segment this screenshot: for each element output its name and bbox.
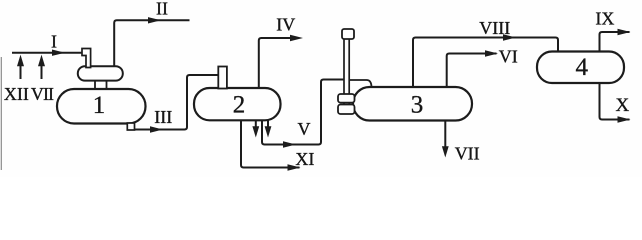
svg-text:II: II [156,0,168,18]
svg-text:III: III [154,107,172,127]
vessel 1 [57,89,146,124]
arrow on line VIII [503,34,516,40]
svg-text:3: 3 [411,91,424,118]
svg-text:VI: VI [499,47,518,67]
wire V from vessel 2 to vessel 3 mixer [262,80,344,145]
svg-text:1: 1 [93,92,106,119]
vessel 2 bottom stub down-arrow b [267,120,269,128]
svg-text:4: 4 [575,54,588,81]
svg-text:2: 2 [233,91,246,118]
wire X [600,83,630,120]
svg-text:XI: XI [295,149,314,169]
vessel 2 top nozzle [218,67,227,89]
svg-text:IX: IX [595,9,614,29]
wire XI [241,120,300,167]
scan artifact left edge [0,57,2,170]
mixer shaft on vessel 3 [344,39,349,110]
wire III from vessel 1 to vessel 2 [134,75,219,130]
arrow on line II [148,17,161,23]
svg-text:VII: VII [31,84,54,104]
wire I feed line [12,52,82,54]
arrow XI tip [288,164,301,170]
svg-text:I: I [51,32,57,52]
wire VI [447,54,497,88]
wire II [114,20,189,66]
mixer stub outline right of shaft [349,80,371,88]
wire VIII from vessel 3 to vessel 4 [413,38,558,88]
mixer flange box 2 [338,105,355,115]
arrow X tip [618,116,631,122]
vessel 2 [194,88,281,120]
arrow on line I [52,50,65,56]
wire IV [259,38,297,88]
inlet elbow fitting on small drum [82,49,91,68]
vessel 3 [353,87,472,121]
arrow on line V [283,141,296,147]
arrow IV tip [290,35,303,41]
mixer cap [342,29,354,39]
wire IX [600,32,630,52]
arrow VI tip [485,50,498,56]
vessel 1 small drum nozzle to vessel 1 [95,79,107,90]
arrow on line III [150,126,163,132]
small drum on vessel 1 [78,66,123,80]
vessel 2 bottom stub down-arrow a [255,120,257,128]
vessel 4 [537,52,624,84]
mixer flange box 1 [338,94,355,103]
svg-text:IV: IV [276,14,295,34]
wire stream XII up-arrow [20,62,22,79]
svg-text:VIII: VIII [479,18,510,38]
vessel 1 bottom-right nozzle [127,123,134,130]
arrow IX tip [618,29,631,35]
svg-text:VII: VII [455,143,480,163]
wire stream VII (left) up-arrow [41,62,43,79]
svg-text:X: X [616,95,630,116]
wire VII (down from vessel 3) [444,121,446,149]
svg-text:XII: XII [4,84,29,104]
svg-text:V: V [298,119,311,139]
